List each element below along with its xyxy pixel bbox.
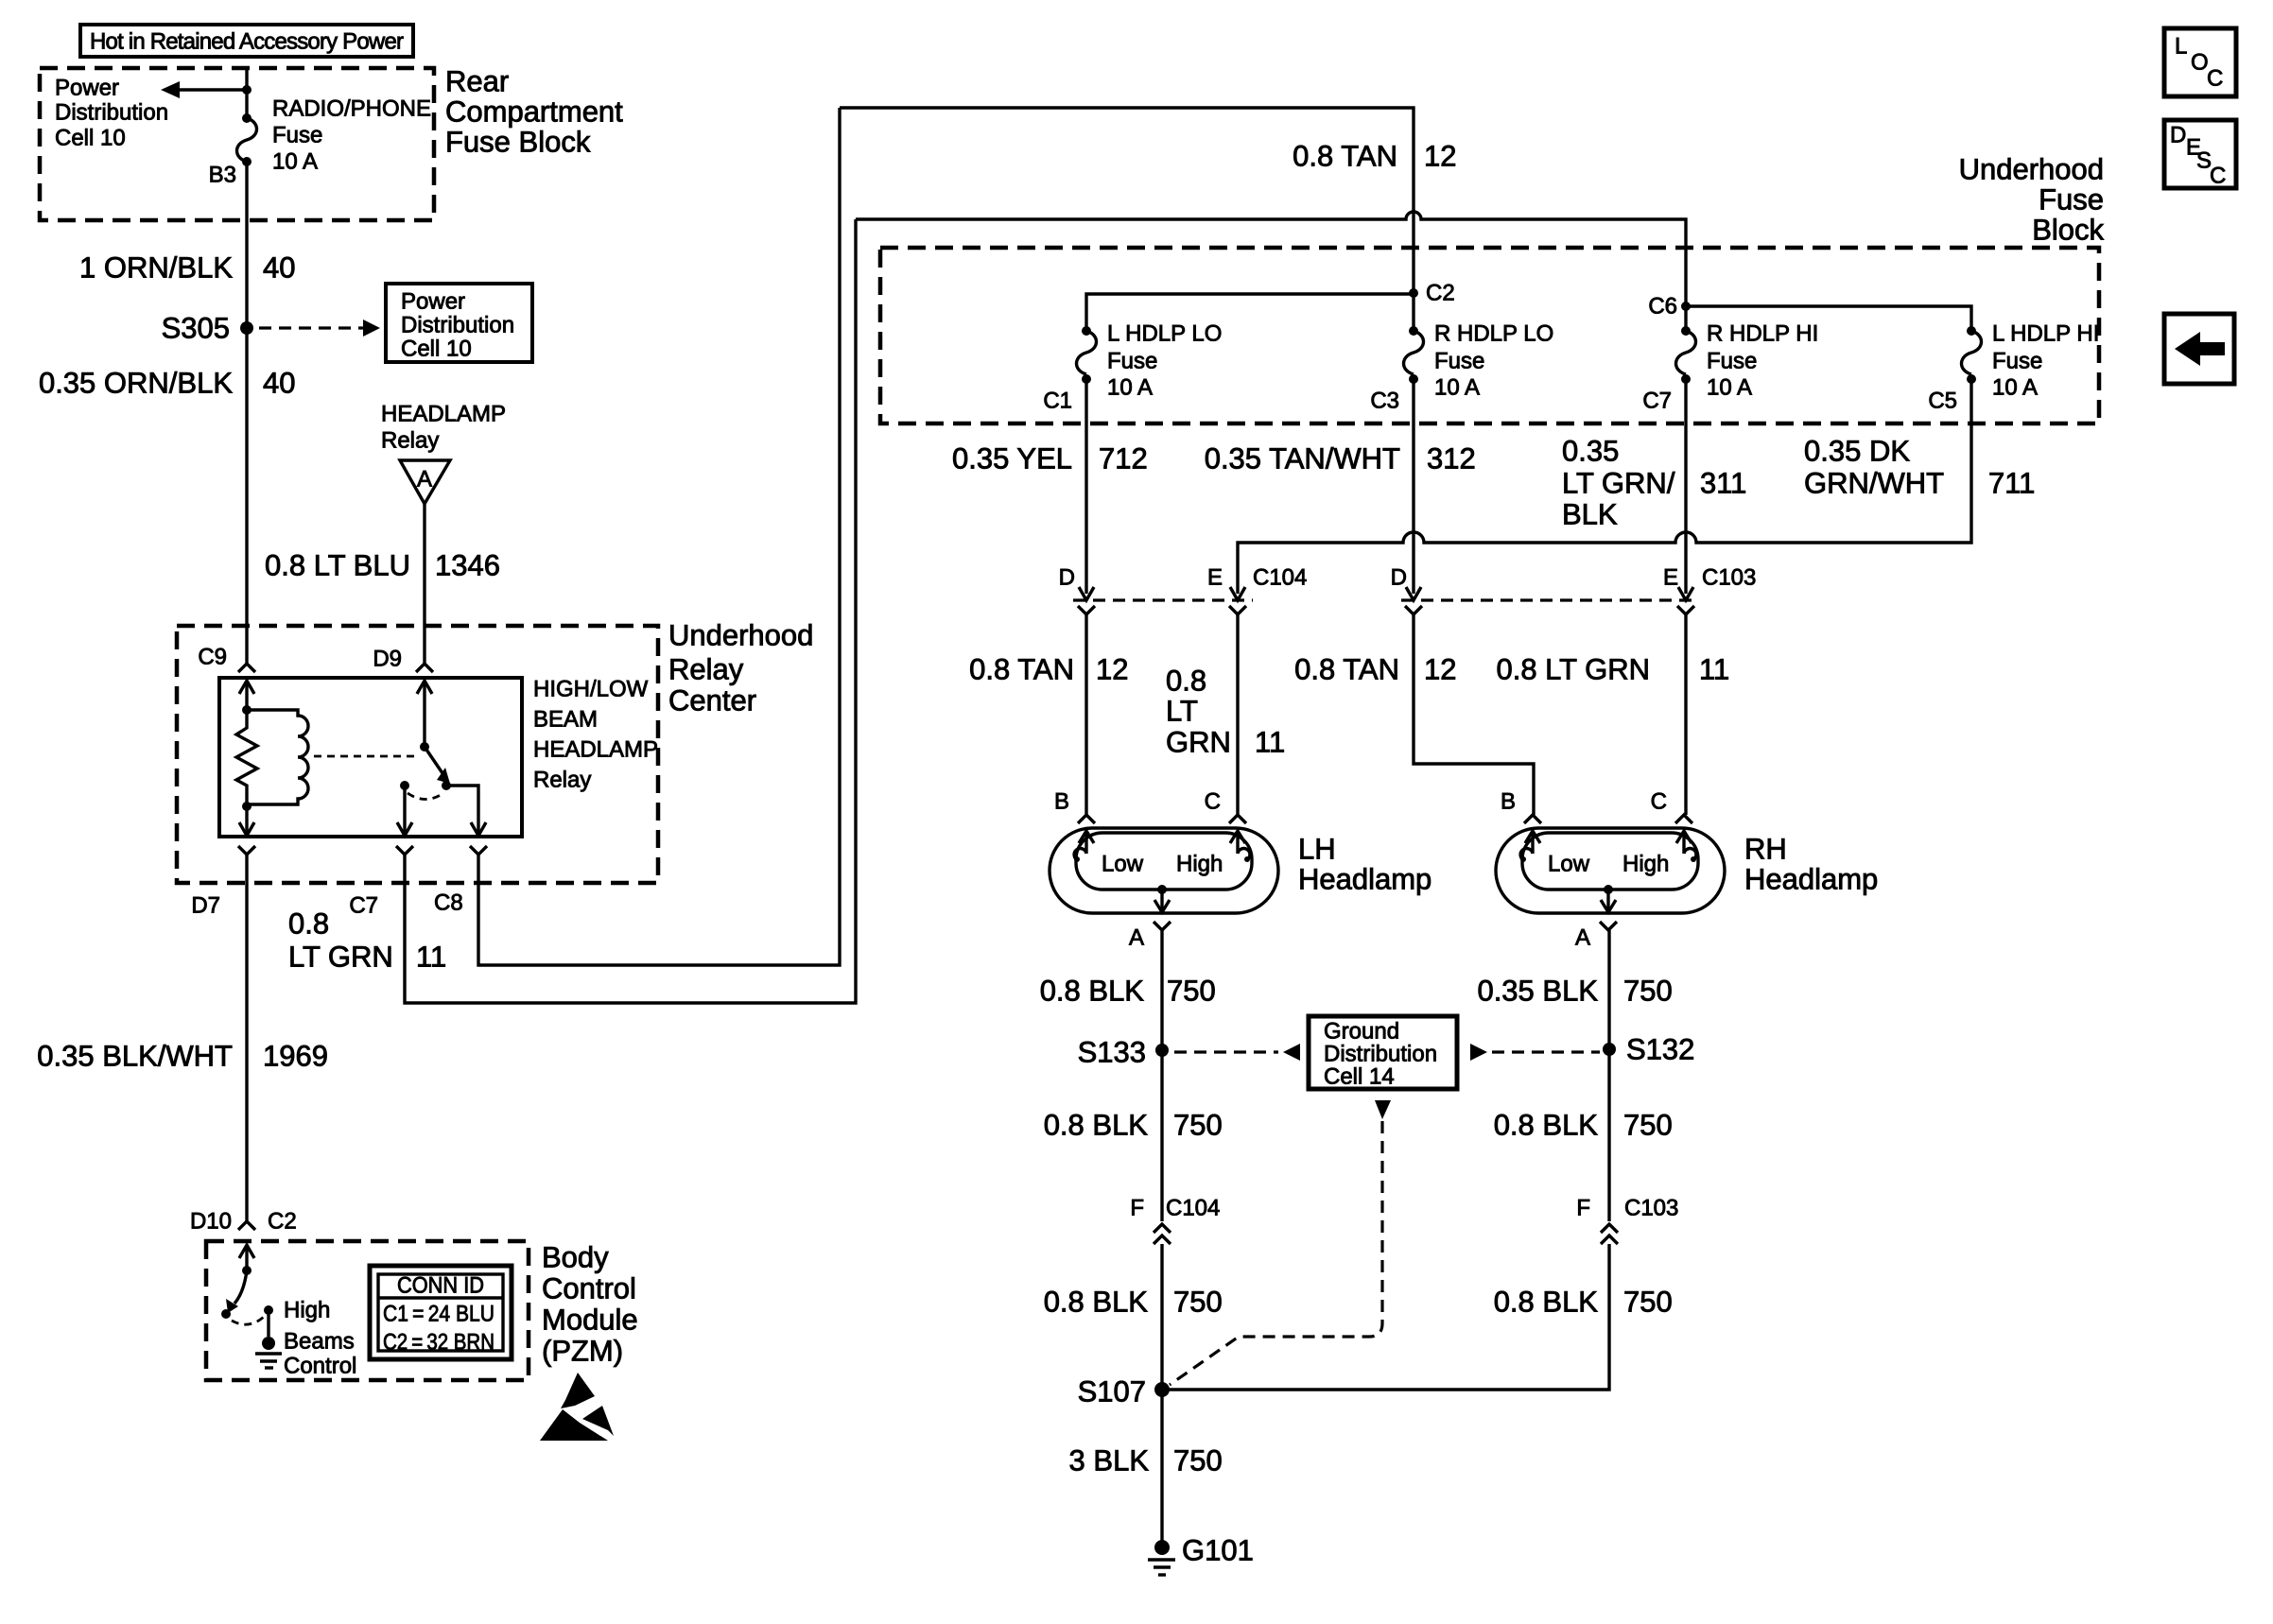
svg-text:S107: S107 <box>1078 1375 1146 1408</box>
svg-text:High: High <box>1622 852 1669 877</box>
svg-text:Body: Body <box>542 1241 609 1274</box>
svg-text:0.8 LT BLU: 0.8 LT BLU <box>265 549 410 582</box>
svg-text:Module: Module <box>542 1304 638 1337</box>
svg-text:G101: G101 <box>1182 1534 1254 1567</box>
svg-text:0.8 TAN: 0.8 TAN <box>969 653 1074 686</box>
svg-text:B: B <box>1054 789 1069 815</box>
svg-text:Rear: Rear <box>445 65 509 98</box>
svg-text:O: O <box>2191 50 2209 76</box>
svg-text:0.8: 0.8 <box>288 907 329 941</box>
svg-text:Fuse: Fuse <box>272 123 322 148</box>
svg-text:C103: C103 <box>1702 565 1756 591</box>
svg-text:10 A: 10 A <box>272 149 318 175</box>
svg-text:D: D <box>1391 565 1407 591</box>
svg-text:Low: Low <box>1102 852 1144 877</box>
svg-text:750: 750 <box>1623 975 1673 1008</box>
svg-text:D: D <box>1059 565 1075 591</box>
svg-text:11: 11 <box>1255 726 1285 759</box>
svg-text:Block: Block <box>2032 214 2104 247</box>
svg-text:40: 40 <box>263 367 295 400</box>
svg-text:C2 = 32 BRN: C2 = 32 BRN <box>383 1330 495 1356</box>
svg-text:750: 750 <box>1173 1444 1223 1477</box>
svg-text:0.35 TAN/WHT: 0.35 TAN/WHT <box>1205 442 1400 475</box>
svg-text:Fuse: Fuse <box>1107 349 1157 374</box>
svg-text:Low: Low <box>1548 852 1590 877</box>
svg-text:A: A <box>1129 925 1144 951</box>
svg-text:C2: C2 <box>1426 281 1455 306</box>
svg-text:0.8: 0.8 <box>1166 665 1206 698</box>
svg-text:12: 12 <box>1096 653 1128 686</box>
svg-text:12: 12 <box>1424 140 1456 173</box>
svg-text:Underhood: Underhood <box>1959 153 2104 186</box>
svg-text:C104: C104 <box>1166 1196 1220 1221</box>
svg-text:R HDLP LO: R HDLP LO <box>1434 321 1553 347</box>
svg-text:312: 312 <box>1427 442 1476 475</box>
svg-text:C: C <box>1205 789 1221 815</box>
svg-text:C104: C104 <box>1253 565 1307 591</box>
svg-text:C1: C1 <box>1043 389 1072 414</box>
svg-text:L: L <box>2175 34 2187 60</box>
svg-text:HEADLAMP: HEADLAMP <box>533 737 658 763</box>
svg-text:Hot in Retained Accessory Powe: Hot in Retained Accessory Power <box>90 29 404 55</box>
svg-text:750: 750 <box>1167 975 1216 1008</box>
svg-text:D10: D10 <box>190 1209 232 1235</box>
svg-text:750: 750 <box>1623 1286 1673 1319</box>
svg-text:D: D <box>2170 123 2186 148</box>
svg-text:750: 750 <box>1173 1286 1223 1319</box>
svg-text:750: 750 <box>1173 1109 1223 1142</box>
svg-text:0.8 BLK: 0.8 BLK <box>1044 1109 1149 1142</box>
svg-text:Fuse Block: Fuse Block <box>445 126 591 159</box>
svg-text:LH: LH <box>1298 833 1336 866</box>
svg-text:Cell 10: Cell 10 <box>55 126 126 151</box>
svg-text:BLK: BLK <box>1562 498 1618 531</box>
svg-text:C103: C103 <box>1624 1196 1678 1221</box>
svg-text:BEAM: BEAM <box>533 707 598 733</box>
svg-text:Beams: Beams <box>284 1329 355 1355</box>
svg-text:0.8 TAN: 0.8 TAN <box>1293 140 1397 173</box>
svg-text:C1 = 24 BLU: C1 = 24 BLU <box>383 1302 495 1327</box>
svg-text:12: 12 <box>1424 653 1456 686</box>
svg-text:RADIO/PHONE: RADIO/PHONE <box>272 96 431 122</box>
svg-text:1346: 1346 <box>435 549 500 582</box>
svg-text:High: High <box>1176 852 1223 877</box>
svg-text:C5: C5 <box>1928 389 1957 414</box>
svg-text:10 A: 10 A <box>1707 375 1752 401</box>
svg-text:C2: C2 <box>268 1209 297 1235</box>
svg-text:1 ORN/BLK: 1 ORN/BLK <box>79 251 233 285</box>
svg-text:Power: Power <box>55 76 119 101</box>
svg-text:A: A <box>1575 925 1590 951</box>
svg-text:L HDLP HI: L HDLP HI <box>1992 321 2099 347</box>
svg-text:40: 40 <box>263 251 295 285</box>
svg-text:C3: C3 <box>1370 389 1399 414</box>
svg-text:B3: B3 <box>209 163 236 188</box>
svg-text:0.35: 0.35 <box>1562 435 1619 468</box>
svg-text:LT GRN/: LT GRN/ <box>1562 467 1675 500</box>
svg-text:HEADLAMP: HEADLAMP <box>381 402 506 427</box>
svg-text:LT GRN: LT GRN <box>288 941 393 974</box>
svg-text:D7: D7 <box>191 893 220 919</box>
svg-text:Fuse: Fuse <box>1992 349 2042 374</box>
svg-text:Fuse: Fuse <box>1434 349 1484 374</box>
svg-text:Ground: Ground <box>1324 1019 1399 1045</box>
svg-text:711: 711 <box>1988 467 2035 500</box>
svg-text:C7: C7 <box>349 893 378 919</box>
svg-text:11: 11 <box>1699 653 1729 686</box>
svg-text:Distribution: Distribution <box>1324 1042 1437 1067</box>
svg-text:0.8 BLK: 0.8 BLK <box>1494 1109 1599 1142</box>
svg-text:E: E <box>1663 565 1678 591</box>
svg-text:0.8 BLK: 0.8 BLK <box>1494 1286 1599 1319</box>
svg-text:R HDLP HI: R HDLP HI <box>1707 321 1818 347</box>
svg-text:GRN/WHT: GRN/WHT <box>1804 467 1944 500</box>
svg-text:LT: LT <box>1166 695 1198 728</box>
svg-text:Cell 14: Cell 14 <box>1324 1064 1395 1090</box>
svg-text:311: 311 <box>1700 467 1746 500</box>
svg-text:A: A <box>417 467 432 492</box>
svg-text:0.8 BLK: 0.8 BLK <box>1044 1286 1149 1319</box>
svg-text:S133: S133 <box>1078 1036 1146 1069</box>
svg-text:750: 750 <box>1623 1109 1673 1142</box>
svg-text:0.8 BLK: 0.8 BLK <box>1040 975 1145 1008</box>
svg-text:0.35 BLK: 0.35 BLK <box>1477 975 1598 1008</box>
svg-text:0.35 DK: 0.35 DK <box>1804 435 1910 468</box>
svg-text:L HDLP LO: L HDLP LO <box>1107 321 1222 347</box>
svg-text:HIGH/LOW: HIGH/LOW <box>533 677 649 702</box>
svg-text:11: 11 <box>416 941 446 974</box>
svg-text:Distribution: Distribution <box>401 313 514 338</box>
svg-text:F: F <box>1130 1196 1144 1221</box>
svg-text:Distribution: Distribution <box>55 100 168 126</box>
svg-text:0.8 TAN: 0.8 TAN <box>1294 653 1399 686</box>
svg-text:Fuse: Fuse <box>2039 183 2104 216</box>
svg-text:712: 712 <box>1099 442 1148 475</box>
svg-text:CONN ID: CONN ID <box>397 1273 484 1299</box>
svg-text:C: C <box>1651 789 1667 815</box>
svg-text:0.8 LT GRN: 0.8 LT GRN <box>1496 653 1650 686</box>
svg-text:Cell 10: Cell 10 <box>401 337 472 362</box>
svg-text:High: High <box>284 1298 330 1323</box>
svg-text:B: B <box>1501 789 1516 815</box>
svg-text:0.35 YEL: 0.35 YEL <box>952 442 1072 475</box>
svg-text:GRN: GRN <box>1166 726 1231 759</box>
svg-text:1969: 1969 <box>263 1040 328 1073</box>
svg-text:C6: C6 <box>1648 294 1677 320</box>
svg-text:Relay: Relay <box>533 768 591 793</box>
svg-text:S132: S132 <box>1626 1033 1694 1066</box>
svg-text:E: E <box>1207 565 1223 591</box>
svg-text:C7: C7 <box>1642 389 1672 414</box>
svg-text:C: C <box>2210 164 2226 189</box>
svg-text:0.35 ORN/BLK: 0.35 ORN/BLK <box>39 367 233 400</box>
svg-text:Relay: Relay <box>381 428 439 454</box>
svg-text:Compartment: Compartment <box>445 95 623 129</box>
svg-text:F: F <box>1576 1196 1590 1221</box>
svg-text:Control: Control <box>542 1272 636 1305</box>
svg-text:C: C <box>2207 66 2223 92</box>
svg-text:Underhood: Underhood <box>668 619 813 652</box>
svg-text:Headlamp: Headlamp <box>1744 863 1878 896</box>
svg-text:(PZM): (PZM) <box>542 1335 623 1368</box>
svg-text:0.35 BLK/WHT: 0.35 BLK/WHT <box>37 1040 233 1073</box>
svg-text:D9: D9 <box>373 647 402 672</box>
svg-text:10 A: 10 A <box>1434 375 1480 401</box>
svg-text:Control: Control <box>284 1354 356 1379</box>
svg-text:10 A: 10 A <box>1107 375 1153 401</box>
svg-text:C8: C8 <box>434 890 463 916</box>
svg-text:S305: S305 <box>162 312 230 345</box>
svg-text:C9: C9 <box>198 645 227 670</box>
svg-text:RH: RH <box>1744 833 1787 866</box>
svg-text:Center: Center <box>668 684 756 717</box>
svg-text:3 BLK: 3 BLK <box>1069 1444 1150 1477</box>
svg-text:10 A: 10 A <box>1992 375 2038 401</box>
svg-text:Headlamp: Headlamp <box>1298 863 1431 896</box>
svg-text:Power: Power <box>401 289 465 315</box>
svg-text:Relay: Relay <box>668 653 744 686</box>
svg-text:Fuse: Fuse <box>1707 349 1757 374</box>
